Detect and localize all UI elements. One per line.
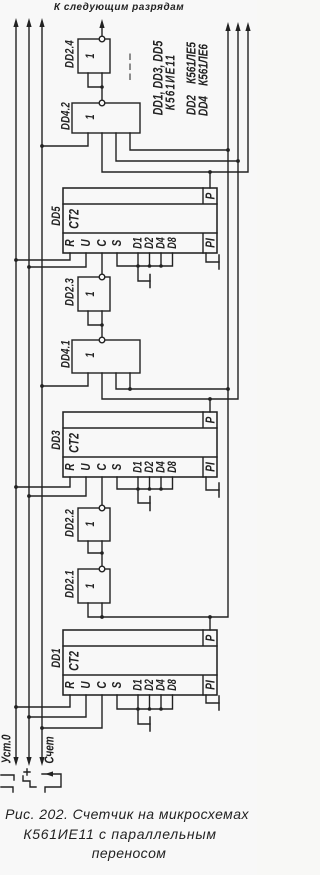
wire DD5 pin C from DD2.3 output [101,253,103,274]
svg-text:Рис. 202. Счетчик на микросхем: Рис. 202. Счетчик на микросхемах [5,806,249,822]
wire net P1: DD1 P output up to next stage, feeds DD2.1, DD4.1, DD4.2 [88,29,228,617]
svg-text:D2: D2 [144,237,156,249]
wire DD5 pin U to U bus [29,253,86,267]
svg-text:R: R [64,463,77,471]
node: pulse symbol at Уст.0 input [1,775,14,792]
wire DD3 pin U to U bus [29,477,86,496]
svg-text:К561ИЕ11 с параллельным: К561ИЕ11 с параллельным [23,826,216,842]
svg-text:1: 1 [85,53,97,58]
svg-text:1: 1 [85,291,97,296]
wire DD3 pins S,D1,D2,D4,D8 tied to common [117,477,173,503]
svg-text:CT2: CT2 [66,651,82,671]
svg-text:Уст.0: Уст.0 [0,734,13,763]
svg-text:U: U [80,239,93,247]
wire bus U (up/down) vertical x29 [28,25,30,757]
svg-text:D4: D4 [155,237,167,249]
svg-text:C: C [96,681,109,689]
svg-text:D2: D2 [144,679,156,691]
wire DD4.2 input 4 from P1 net [130,133,228,150]
svg-text:D4: D4 [155,461,167,473]
svg-text:DD4: DD4 [197,96,210,116]
svg-text:D8: D8 [167,679,179,691]
wire DD1 pin R to Уст.0 bus [16,695,70,707]
node: junction dots on U bus [27,265,31,719]
wire DD1 pins S,D1,D2,D4,D8 tied to common [117,695,173,724]
svg-text:1: 1 [85,114,97,119]
wire DD1 pin U to U bus [29,695,86,717]
svg-text:D1: D1 [132,461,144,473]
svg-text:DD2.4: DD2.4 [63,40,76,68]
wire DD3 pin PI to common [206,477,219,490]
svg-text:1: 1 [85,521,97,526]
svg-text:P: P [204,634,217,641]
svg-text:DD3: DD3 [50,430,63,450]
wire DD4.1 inputs 3,4 tied to P1 net [116,373,228,389]
wire DD3 pin C from DD2.2 output [101,477,103,505]
node: junction dots on Уст.0 bus [14,258,18,709]
op-amp /// gate DD2.4 (NOR as inverter) [63,19,110,100]
wire DD4.1 input 1 from Счет bus [42,373,88,386]
counter DD3 К561ИЕ11 [50,412,218,477]
ground: common bar at DD5 PI [218,255,220,269]
svg-text:1: 1 [85,583,97,588]
svg-text:P: P [204,416,217,423]
node: polarity + and step symbol at U input [23,769,36,787]
svg-text:P: P [204,192,217,199]
node: junction dots on Счет bus [40,144,44,730]
wire DD4.2 input 1 from Счет bus [42,133,88,146]
wire DD3 pin R to Уст.0 bus [16,477,70,487]
wire bus Счет (clock) vertical x42 [41,25,43,757]
wire net P5: DD5 P output up to next stage, feeds DD2.4 via DD4.2 [102,29,248,172]
wire DD1 pin PI to common [206,695,219,703]
svg-text:DD4.1: DD4.1 [59,340,72,368]
svg-text:C: C [96,239,109,247]
svg-text:DD2.2: DD2.2 [63,509,76,537]
svg-text:DD5: DD5 [50,206,63,226]
wire DD4.2 input 3 from P3 net [116,133,238,161]
ground: common bar for DD1 data inputs [149,717,151,731]
svg-text:S: S [111,681,124,688]
svg-text:DD2.1: DD2.1 [63,570,76,598]
svg-text:U: U [80,681,93,689]
wire DD5 pins S,D1,D2,D4,D8 tied to common [117,253,173,281]
svg-text:DD1: DD1 [50,648,63,668]
svg-text:D1: D1 [132,679,144,691]
svg-text:S: S [111,239,124,246]
svg-text:R: R [64,681,77,689]
wire DD5 pin R to Уст.0 bus [16,253,70,260]
svg-text:C: C [96,463,109,471]
gate DD4.2 (4-input NOR) [59,100,140,133]
svg-text:S: S [111,463,124,470]
node: dashed continuation mark [129,54,131,82]
svg-text:DD4.2: DD4.2 [59,102,72,130]
wire net P3: DD3 P output up to next stage, feeds DD4.1, DD4.2 [102,29,238,399]
svg-text:CT2: CT2 [66,433,82,453]
gate DD2.1 (NOR as inverter) [63,566,110,603]
svg-text:PI: PI [204,462,217,472]
svg-text:D2: D2 [144,461,156,473]
counter DD5 К561ИЕ11 [50,188,218,253]
svg-text:Счет: Счет [43,736,56,763]
svg-text:D4: D4 [155,679,167,691]
svg-text:1: 1 [85,352,97,357]
svg-text:R: R [64,239,77,247]
svg-text:К561ИЕ11: К561ИЕ11 [164,54,177,111]
wire DD1 pin C to Счет bus [42,695,102,728]
svg-text:CT2: CT2 [66,209,82,229]
svg-text:К561ЛЕ6: К561ЛЕ6 [197,44,210,86]
ground: common bar for DD5 data inputs [149,275,151,288]
gate DD2.3 (NOR as inverter) [63,274,110,337]
svg-text:U: U [80,463,93,471]
svg-text:D8: D8 [167,461,179,473]
wire DD5 pin PI to common [206,253,219,262]
wire bus Уст.0 (reset) vertical x16 [15,25,17,757]
svg-text:К следующим разрядам: К следующим разрядам [54,2,184,13]
svg-text:D1: D1 [132,237,144,249]
gate DD2.2 (NOR as inverter) [63,505,110,566]
ground: common bar at DD1 PI [218,696,220,710]
svg-text:переносом: переносом [92,845,167,861]
ground: common bar at DD3 PI [218,483,220,497]
svg-text:DD2.3: DD2.3 [63,278,76,306]
svg-text:PI: PI [204,238,217,248]
gate DD4.1 (4-input NOR) [59,337,140,373]
svg-text:D8: D8 [167,237,179,249]
ground: common bar for DD3 data inputs [149,497,151,511]
node: pulse symbol with arrow at Счет input [42,774,61,792]
svg-text:PI: PI [204,680,217,690]
counter DD1 К561ИЕ11 [50,630,218,695]
